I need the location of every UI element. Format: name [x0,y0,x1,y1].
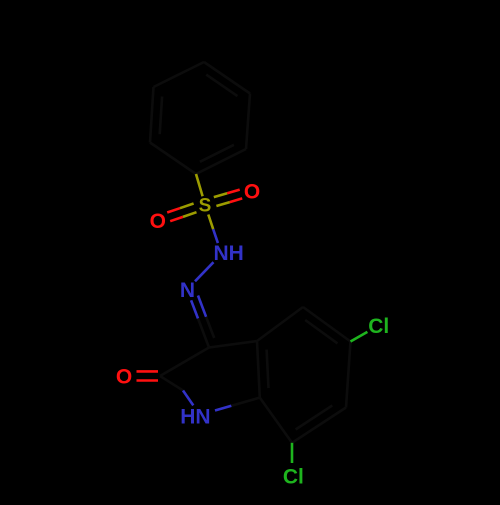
svg-text:N: N [180,279,195,302]
svg-text:O: O [150,210,166,233]
node phenyl-ring [150,62,250,174]
node C2=O [137,371,159,380]
svg-text:NH: NH [214,242,244,265]
wire C5-Cl [351,332,368,342]
wire N1-C7a [215,406,231,411]
wire NH-N [195,262,214,281]
node S=O-left [167,204,196,222]
wire S-NH [208,215,213,230]
wire C7-Cl [291,443,294,463]
svg-text:O: O [116,366,132,389]
node pentanone-ring [160,341,260,398]
svg-text:HN: HN [180,406,210,429]
node N=C3 [191,296,214,348]
svg-text:Cl: Cl [283,466,304,489]
node S=O-right [214,190,242,206]
svg-text:O: O [244,180,260,203]
node benzo-ring [257,307,351,443]
svg-text:S: S [199,195,212,216]
svg-text:Cl: Cl [368,315,389,338]
wire C2-N1 [160,376,183,391]
wire C1-S [196,174,203,196]
